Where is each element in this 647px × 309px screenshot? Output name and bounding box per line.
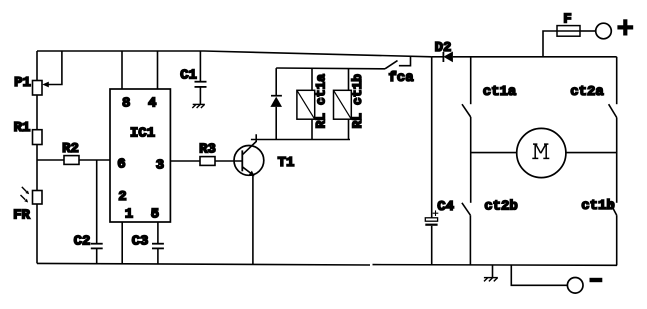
wire bridge left vertical upper [470, 57, 472, 104]
wire C4 branch [431, 57, 433, 218]
wire D2 to bridge top rail [453, 56, 617, 58]
wire pin 3 to R3 [170, 160, 200, 162]
wire bottom rail left segment [37, 263, 370, 265]
svg-text:R2: R2 [62, 141, 79, 157]
terminal minus circle [567, 278, 583, 294]
wire collector node [251, 139, 350, 141]
wire C1 to ground [199, 87, 201, 104]
wire fuse branch [543, 31, 557, 57]
wire R1 to FR [36, 145, 38, 191]
switch fca [385, 56, 411, 69]
svg-text:RL ct1a: RL ct1a [314, 74, 329, 129]
wire bridge right vertical middle [616, 118, 618, 203]
capacitor C2 [91, 244, 103, 249]
IC U1 IC1 box [110, 89, 170, 222]
svg-text:P1: P1 [14, 75, 31, 91]
capacitor C4 [425, 210, 438, 224]
svg-text:ct1b: ct1b [581, 198, 615, 214]
wire minus terminal stub [511, 265, 567, 285]
wire ground stub [492, 265, 494, 278]
wire relay rail [276, 67, 385, 70]
switch ct2b [462, 203, 471, 215]
svg-text:5: 5 [151, 207, 159, 223]
svg-text:ct1a: ct1a [483, 84, 517, 100]
svg-text:FR: FR [13, 208, 30, 224]
wire bottom rail right segment [373, 264, 618, 267]
wire fuse to plus terminal [580, 30, 596, 32]
wire R2 left [37, 159, 64, 161]
diode D2 [443, 52, 453, 63]
capacitor C1 [195, 82, 207, 87]
wire C2 to bottom rail [96, 248, 98, 263]
svg-text:RL ct1b: RL ct1b [350, 74, 365, 129]
photoresistor FR [21, 187, 43, 204]
svg-text:1: 1 [125, 207, 133, 223]
wire T1 emitter to bottom rail [252, 175, 254, 264]
wire FR to bottom rail [36, 204, 38, 263]
svg-text:ct2a: ct2a [570, 84, 604, 100]
svg-text:2: 2 [118, 189, 126, 205]
wire bridge left vertical middle [470, 117, 472, 203]
svg-text:C1: C1 [180, 68, 197, 84]
wire R2 to IC1 pin 6 [79, 159, 110, 161]
switch ct1a [462, 104, 471, 117]
switch ct2a [609, 104, 617, 117]
capacitor C3 [152, 244, 164, 249]
svg-text:C3: C3 [132, 234, 149, 250]
wire fca node to D2 [432, 56, 444, 58]
svg-text:R1: R1 [14, 120, 31, 136]
diode D1 flyback [270, 68, 282, 139]
resistor R2 [64, 156, 79, 165]
minus sign [590, 278, 603, 282]
svg-text:T1: T1 [278, 155, 295, 171]
wire P1 to R1 [36, 95, 38, 130]
svg-text:6: 6 [117, 156, 125, 172]
wire motor left [471, 152, 517, 154]
wire C4 to bottom rail [431, 226, 433, 265]
switch ct1b [610, 203, 617, 215]
wire pin 8 to top rail [121, 51, 123, 89]
plus sign [617, 19, 633, 35]
svg-text:3: 3 [156, 157, 164, 173]
svg-text:8: 8 [122, 96, 130, 112]
svg-text:IC1: IC1 [130, 126, 155, 142]
svg-text:D2: D2 [435, 40, 452, 56]
motor M [517, 128, 566, 177]
ground at C1 [192, 104, 205, 108]
wire bridge right vertical upper [616, 57, 618, 104]
terminal plus circle [596, 23, 612, 39]
wire C1 branch [199, 51, 201, 82]
wire P1 top [36, 51, 38, 81]
transistor T1 [234, 134, 264, 176]
svg-text:R3: R3 [199, 142, 216, 158]
svg-text:F: F [563, 12, 571, 28]
wire bridge left vertical lower [469, 215, 471, 265]
relay coil RL ct1b [334, 69, 352, 140]
wire motor right [566, 152, 617, 154]
wire bridge right vertical lower [616, 215, 618, 265]
wire pin 4 to top rail [157, 51, 159, 89]
potentiometer P1 [33, 51, 62, 95]
wire C2 branch [96, 160, 98, 244]
fuse F [557, 26, 580, 37]
wire C3 to bottom rail [157, 248, 159, 263]
svg-text:C4: C4 [437, 199, 454, 215]
resistor R3 [200, 157, 215, 166]
svg-text:ct2b: ct2b [484, 198, 518, 214]
wire top rail [37, 51, 432, 57]
wire pin 5 to C3 [157, 222, 159, 244]
svg-text:4: 4 [148, 96, 156, 112]
resistor R1 [33, 130, 43, 145]
svg-text:fca: fca [388, 70, 414, 86]
relay coil RL ct1a [297, 68, 315, 139]
wire pin 1 to bottom rail [121, 222, 123, 264]
wire R3 to T1 base [215, 160, 242, 162]
ground battery negative [484, 278, 498, 282]
svg-text:C2: C2 [74, 234, 91, 250]
